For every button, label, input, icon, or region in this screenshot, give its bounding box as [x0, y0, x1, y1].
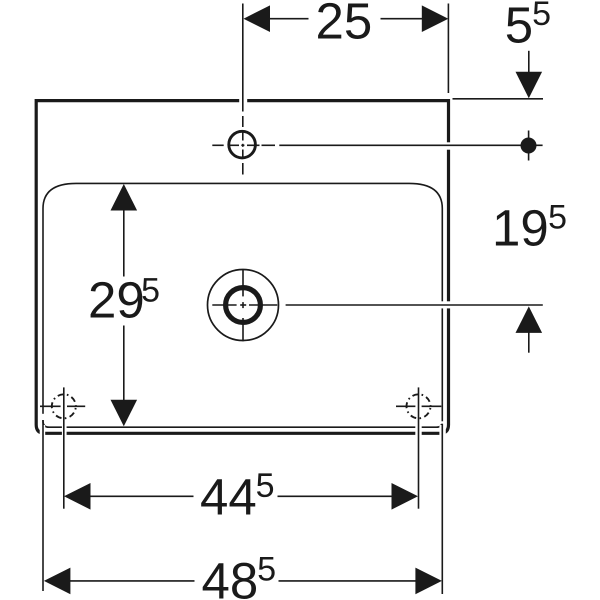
washbasin inner basin outline	[43, 183, 442, 427]
dim 29.5: up arrowhead	[111, 184, 138, 211]
svg-text:44: 44	[200, 469, 257, 526]
dim 44.5: dimension line	[90, 495, 194, 497]
screw hole left centerline horizontal	[40, 405, 61, 407]
dim 25: right arrowhead	[422, 5, 449, 32]
dim 5.5: down arrowhead	[516, 72, 543, 99]
dim 48.5: left arrowhead	[44, 568, 71, 595]
dim 48.5: right arrowhead	[415, 568, 442, 595]
svg-text:25: 25	[316, 0, 373, 49]
drain inner circle	[226, 288, 261, 323]
screw hole right (dashed)	[407, 394, 431, 418]
drain reference line to dim 19.5	[286, 304, 543, 306]
svg-text:29: 29	[88, 272, 145, 329]
dim 5.5: arrow tail	[528, 51, 530, 73]
dim 25: dimension line	[269, 18, 309, 20]
dim 44.5: right arrowhead	[392, 483, 419, 510]
top edge extension line right	[453, 98, 544, 100]
dim 19.5: up arrowhead	[516, 306, 543, 333]
drain outer circle	[208, 270, 279, 341]
faucet hole	[229, 131, 256, 158]
screw hole left centerline vertical / dim 44.5 extension	[63, 387, 65, 508]
dim 44.5: left arrowhead	[64, 483, 91, 510]
svg-text:19: 19	[492, 199, 549, 256]
dim 29.5: down arrowhead	[111, 400, 138, 427]
faucet axis dot	[521, 138, 537, 154]
dim 29.5: dimension line	[123, 210, 125, 277]
screw hole right centerline vertical / dim 44.5 extension	[418, 387, 420, 508]
svg-text:48: 48	[202, 552, 259, 600]
dim 48.5: left extension line	[42, 420, 44, 591]
screw hole right centerline horizontal	[396, 405, 415, 407]
faucet axis marker line	[528, 131, 530, 161]
washbasin outer outline	[36, 101, 448, 434]
dim 25: right extension line	[447, 4, 449, 94]
contour gaps where centerlines cross	[40, 98, 451, 436]
dim 48.5: right extension line	[441, 424, 443, 594]
dim 19.5: arrow tail	[528, 332, 530, 353]
svg-text:5: 5	[505, 0, 533, 53]
dim 48.5: dimension line	[69, 580, 195, 582]
dim 25: left arrowhead	[244, 5, 271, 32]
drain centerline horizontal	[212, 304, 236, 306]
drain centerline vertical	[242, 269, 244, 296]
faucet hole centerline vertical dashes	[242, 116, 244, 127]
faucet hole centerline horizontal	[212, 144, 223, 146]
screw hole left (dashed)	[52, 394, 76, 418]
dim 25: left extension line (faucet axis)	[242, 4, 244, 112]
